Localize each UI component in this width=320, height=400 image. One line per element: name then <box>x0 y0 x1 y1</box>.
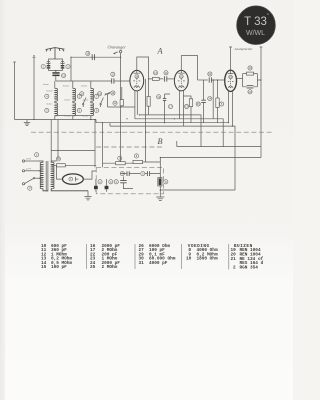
wire grid2 <box>167 78 175 80</box>
switch S1 <box>83 98 87 108</box>
circled 3 <box>77 94 81 98</box>
mains terminal 127V <box>22 170 38 172</box>
capacitor C15 blocking <box>52 72 59 76</box>
circled 2 switch <box>28 186 32 190</box>
svg-text:W/WL: W/WL <box>246 30 265 37</box>
circled 12a <box>113 101 117 105</box>
dashed box B unit <box>96 167 163 194</box>
circled 10 supply <box>56 157 60 161</box>
resistor R12 <box>149 77 164 80</box>
svg-text:binnen: binnen <box>81 86 88 88</box>
bus line L3 <box>96 120 229 123</box>
h-line to ground V <box>160 189 235 191</box>
circled 10 switch <box>98 92 102 96</box>
svg-text:8: 8 <box>81 92 83 96</box>
svg-text:RGN 354: RGN 354 <box>240 266 259 271</box>
resistor R10 supply <box>51 164 96 167</box>
RC network loop <box>243 74 261 87</box>
circled 15 <box>62 74 66 78</box>
tube V3 RE134 output <box>225 70 237 91</box>
svg-text:2: 2 <box>67 65 69 69</box>
svg-text:buiten: buiten <box>65 99 72 102</box>
circled 21a <box>185 104 189 108</box>
svg-text:100 pF: 100 pF <box>51 265 67 270</box>
speaker bracket ticks <box>229 47 262 52</box>
bus line L4 <box>110 126 235 190</box>
circled 20 <box>248 90 252 94</box>
plug contact left <box>47 62 50 64</box>
rectifier V4 RGN354 <box>63 174 84 184</box>
circled 6 cap <box>141 172 145 176</box>
circled 2 elko <box>98 180 102 184</box>
circled 24 <box>208 97 212 101</box>
ground <box>24 120 30 126</box>
resistor R9 <box>103 162 134 165</box>
wire coil block to ground bus <box>90 116 92 120</box>
svg-text:2: 2 <box>233 266 236 271</box>
capacitor C18 <box>92 54 94 60</box>
svg-text:15: 15 <box>41 265 47 270</box>
wire 145 drop <box>146 79 161 162</box>
circled 4 <box>45 94 49 98</box>
tube V2 REN1004 <box>174 70 188 91</box>
circled 7 <box>95 94 99 98</box>
tube V2 pins <box>174 79 183 119</box>
circled 17 <box>169 105 173 109</box>
elko wires <box>96 179 107 192</box>
circled 6 <box>77 108 81 112</box>
circled 19 <box>248 66 252 70</box>
coil L2 upper <box>73 88 76 101</box>
circled 7 cap <box>120 172 124 176</box>
antenna <box>46 48 65 59</box>
svg-text:1: 1 <box>36 153 38 157</box>
capacitor C11 grid <box>112 78 114 83</box>
svg-text:T 33: T 33 <box>244 16 267 28</box>
heater lead a <box>94 120 96 168</box>
wire C6 <box>145 173 160 175</box>
svg-text:8: 8 <box>165 180 167 184</box>
dashed stub <box>96 146 163 148</box>
logo badge T33 W/WL <box>237 6 276 45</box>
svg-text:ausser: ausser <box>83 100 89 102</box>
wire C3 <box>123 177 133 189</box>
circled 13 <box>157 95 161 99</box>
svg-text:8: 8 <box>136 154 138 158</box>
coil L-ant upper (binnen) <box>55 88 58 101</box>
svg-text:6: 6 <box>79 108 81 112</box>
wire trimmer drop <box>106 97 108 107</box>
wire C17 <box>165 94 170 123</box>
transformer top leads <box>51 120 95 163</box>
resistor R25 <box>201 80 206 123</box>
wire L4 stub <box>109 123 111 126</box>
tube V1 REN1004 <box>130 70 144 91</box>
svg-text:2 MOhm: 2 MOhm <box>102 265 118 270</box>
circled 8 res <box>134 154 138 158</box>
ground transformer <box>84 191 91 200</box>
circled 11 <box>111 72 115 76</box>
wire grid3 <box>211 80 224 96</box>
coil bottom bus <box>55 101 91 120</box>
wire ontvanger drop <box>120 53 122 163</box>
svg-text:2: 2 <box>29 186 31 190</box>
aux terminal lead <box>13 62 16 120</box>
bus line L2 <box>135 119 223 147</box>
coil top bus <box>56 80 112 82</box>
coil L-ant lower (buiten) <box>55 103 58 116</box>
circled 8 bleeder <box>164 180 168 184</box>
wire antenna split <box>49 59 63 62</box>
svg-text:1800 Ohm: 1800 Ohm <box>197 257 218 262</box>
circled 8 switch <box>80 92 84 96</box>
circled 16 <box>164 71 168 75</box>
svg-text:1: 1 <box>42 65 44 69</box>
speaker right lead <box>260 52 262 158</box>
svg-text:binnen: binnen <box>47 91 54 93</box>
capacitor C2 <box>61 64 65 71</box>
transformer T1 secondary <box>51 161 88 191</box>
coil L3 upper <box>91 88 94 101</box>
svg-text:6: 6 <box>142 172 144 176</box>
circled 25 <box>196 102 200 106</box>
wire C7 <box>121 173 140 175</box>
svg-text:2: 2 <box>99 180 101 184</box>
svg-text:9: 9 <box>96 108 98 112</box>
svg-text:binnen: binnen <box>63 86 70 88</box>
svg-text:4: 4 <box>46 94 48 98</box>
circled 22 <box>208 72 212 76</box>
capacitor C1 <box>47 64 51 71</box>
coil L3 lower <box>91 103 94 116</box>
circled 1 <box>41 65 45 69</box>
svg-text:31: 31 <box>139 261 145 266</box>
plate loop V1 <box>137 57 149 79</box>
circled 2 <box>66 65 70 69</box>
ground B unit <box>156 197 164 201</box>
circled 1 transformer <box>35 153 39 157</box>
resistor R under loop <box>147 79 150 115</box>
svg-text:10: 10 <box>186 257 192 262</box>
coil L2 lower <box>73 103 76 116</box>
anode wire to network <box>237 77 243 79</box>
svg-text:Lautsprecher: Lautsprecher <box>234 47 254 51</box>
svg-text:4000 pF: 4000 pF <box>149 261 168 266</box>
svg-text:220V.: 220V. <box>26 159 32 161</box>
circled 3 elko <box>114 180 118 184</box>
resistor R23 grid leak <box>216 80 219 123</box>
resistor R8 bleeder <box>158 178 162 186</box>
heater lead b <box>102 123 104 168</box>
bus line L1 <box>139 115 201 147</box>
resistor R8a <box>133 160 146 163</box>
circled 12 <box>154 71 158 75</box>
capacitor C17 <box>163 99 166 101</box>
tube V1 pins <box>130 81 137 115</box>
svg-text:A: A <box>110 180 112 184</box>
parts table <box>41 244 264 271</box>
junction dots <box>33 57 261 191</box>
transformer T1 primary <box>39 161 49 191</box>
mains switch <box>22 178 38 185</box>
capacitor C22 <box>209 77 211 82</box>
svg-text:5: 5 <box>221 102 223 106</box>
capacitor C7 <box>127 171 129 176</box>
resistor R13 under V1 <box>134 107 136 119</box>
Ontvanger terminal <box>114 50 122 54</box>
dashed separator main <box>31 131 274 133</box>
ground bus <box>15 119 97 121</box>
wire V2 to output grid <box>198 79 208 81</box>
resistor R12a <box>107 87 134 107</box>
earth terminal lead <box>33 56 36 120</box>
transformer T1 core <box>46 161 48 192</box>
svg-text:127V.: 127V. <box>26 168 32 170</box>
capacitor C16 <box>165 76 167 81</box>
top cap lead <box>230 52 232 70</box>
wire rejoin <box>49 71 63 72</box>
wire to coil top bus <box>55 76 57 81</box>
mains terminal 220V <box>22 160 38 162</box>
wire col drops <box>55 81 91 89</box>
capacitor C6 <box>147 171 149 176</box>
wire bleeder <box>159 158 161 198</box>
trimmer C14 <box>105 92 111 97</box>
svg-text:5: 5 <box>46 108 48 112</box>
capacitor C3 elko <box>120 181 126 183</box>
elko marks <box>94 186 108 189</box>
switch S2 <box>100 98 104 108</box>
svg-text:3: 3 <box>115 180 117 184</box>
wire grid1 <box>114 80 130 82</box>
svg-text:B: B <box>158 137 163 146</box>
resistor R19 <box>246 72 253 75</box>
svg-text:buiten: buiten <box>47 103 54 106</box>
lower h-line B <box>160 157 261 159</box>
svg-text:21: 21 <box>231 257 237 262</box>
circled 18 <box>86 51 90 55</box>
lower h-line A <box>177 141 261 147</box>
tube V3 pins <box>225 80 233 126</box>
svg-text:buiten: buiten <box>43 83 50 86</box>
rectifier pins <box>57 165 97 179</box>
circled 5 <box>45 108 49 112</box>
plug contact right <box>61 62 64 64</box>
svg-text:A: A <box>157 47 164 56</box>
wire C24 <box>212 96 214 119</box>
circled 9 res <box>118 156 122 160</box>
circled 23 <box>220 102 224 106</box>
circled A elko <box>109 180 113 184</box>
resistor R cathode V2 <box>183 96 192 126</box>
top feed wire <box>71 57 121 81</box>
svg-text:25: 25 <box>90 265 96 270</box>
circled 9 <box>95 108 99 112</box>
plate loop V2 <box>181 56 197 80</box>
capacitor C20 <box>247 86 254 88</box>
svg-text:Ontvanger: Ontvanger <box>108 45 127 50</box>
circled 14 <box>111 91 115 95</box>
